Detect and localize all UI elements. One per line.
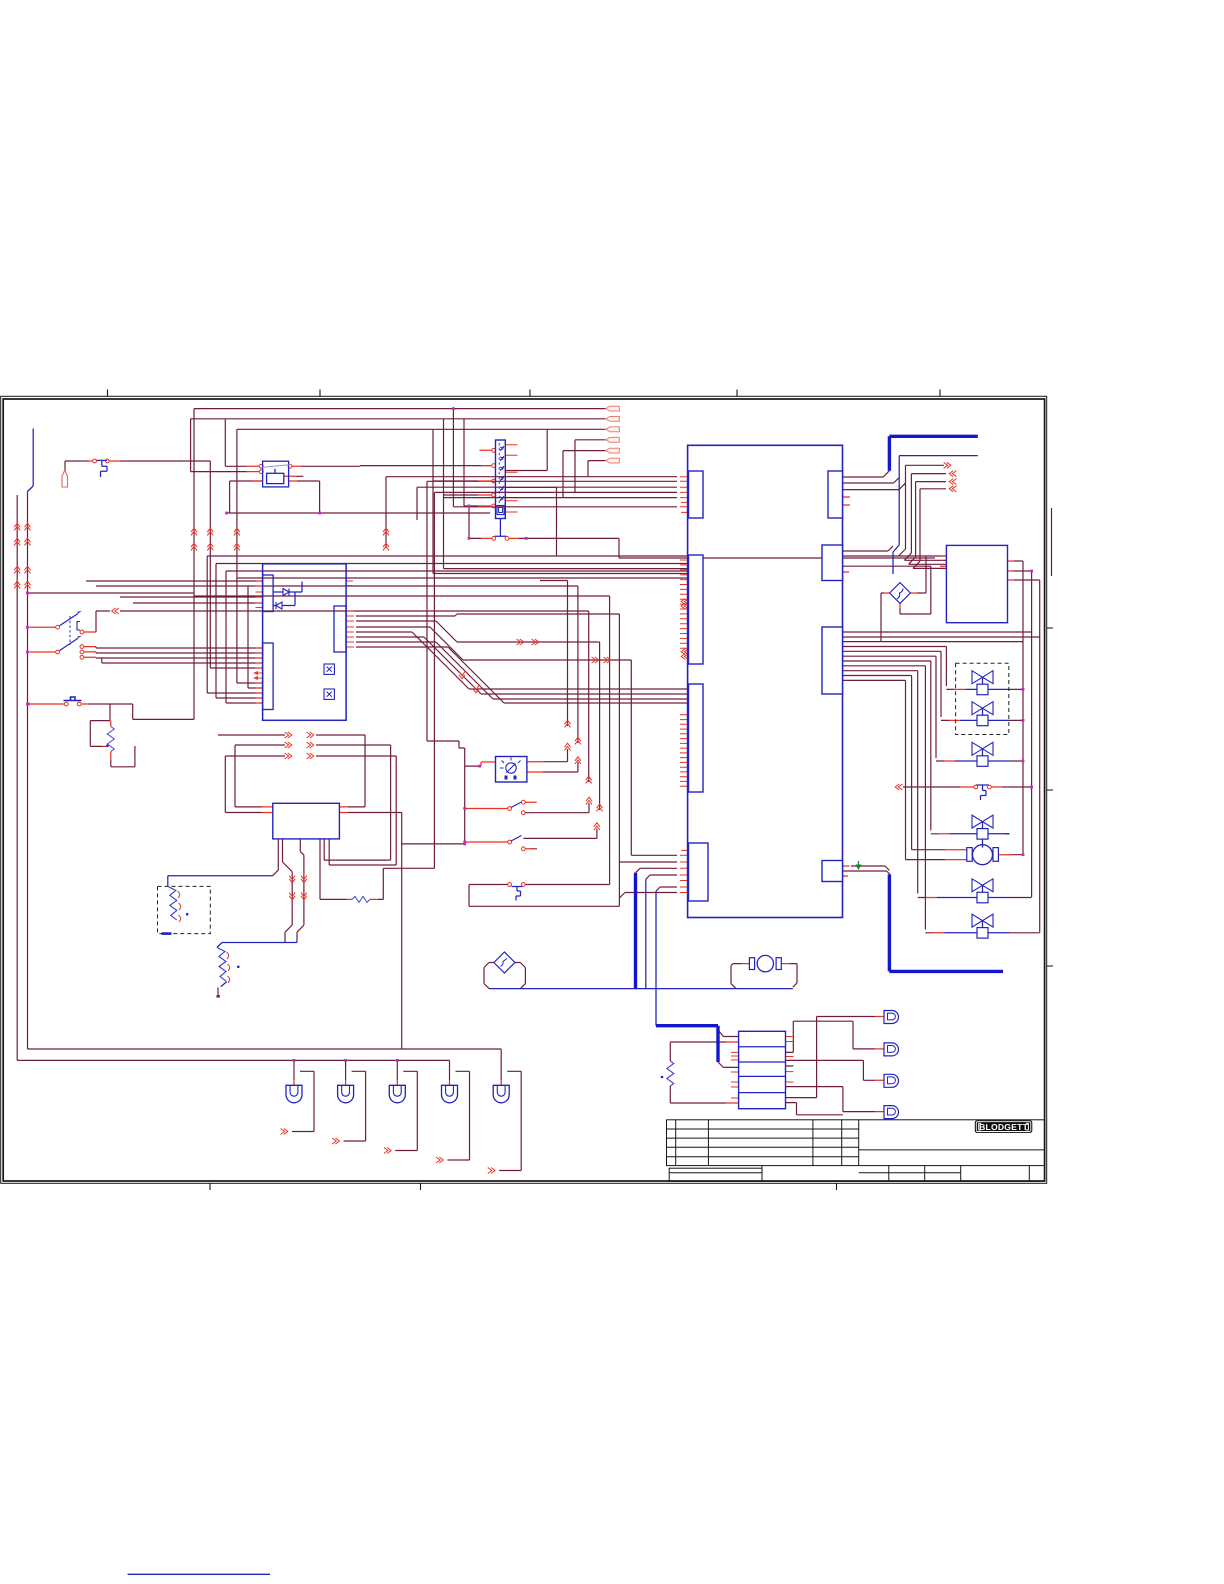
- svg-text:BLODGETT: BLODGETT: [979, 1122, 1028, 1132]
